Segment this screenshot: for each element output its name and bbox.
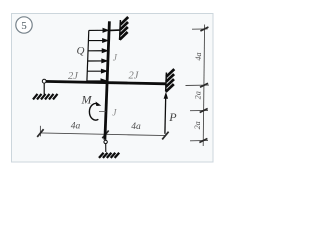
svg-text:4a: 4a (71, 121, 81, 131)
svg-text:4a: 4a (194, 52, 203, 60)
svg-text:2J: 2J (68, 71, 79, 82)
svg-text:2a: 2a (193, 91, 202, 99)
svg-text:2a: 2a (193, 121, 202, 129)
svg-text:5: 5 (21, 20, 27, 32)
svg-text:P: P (168, 110, 177, 124)
svg-text:2J: 2J (129, 71, 140, 82)
svg-text:M: M (81, 93, 93, 107)
svg-text:4a: 4a (131, 122, 141, 132)
svg-text:Q: Q (77, 45, 85, 57)
